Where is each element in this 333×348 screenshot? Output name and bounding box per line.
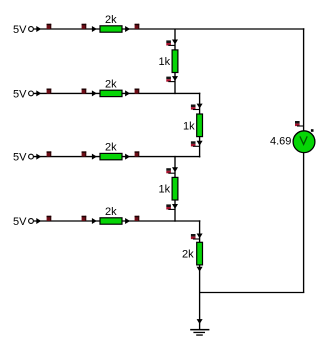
probe dot xyxy=(311,129,314,132)
wire V2 to R2 xyxy=(34,90,100,96)
ground xyxy=(190,319,209,336)
wire node D down through R8 to ground node xyxy=(197,220,203,329)
wire R3 to node C xyxy=(122,154,200,160)
wire V3 to R3 xyxy=(34,154,100,160)
pin R4 left xyxy=(82,216,87,221)
wire top-right corner down to voltmeter and bottom-right corner xyxy=(303,28,305,292)
svg-text:1k: 1k xyxy=(159,56,171,68)
wire node B down to R6 xyxy=(197,93,203,158)
resistor R1 2k xyxy=(100,14,122,32)
resistor R3 2k xyxy=(100,142,122,160)
pin R5 bottom xyxy=(166,77,175,82)
svg-text:2k: 2k xyxy=(182,249,194,261)
svg-text:2k: 2k xyxy=(105,78,117,90)
svg-text:2k: 2k xyxy=(105,14,117,26)
pin V3 xyxy=(47,151,52,156)
svg-text:5V: 5V xyxy=(13,152,27,164)
svg-text:5V: 5V xyxy=(13,216,27,228)
pin V1 xyxy=(47,24,52,29)
pin R7 top xyxy=(166,168,175,173)
pin R5 top xyxy=(166,40,175,45)
pin R1 right xyxy=(135,24,140,29)
resistor R5 1k xyxy=(159,50,178,73)
pin R2 left xyxy=(82,89,87,94)
pin R1 left xyxy=(82,24,87,29)
pin V2 xyxy=(47,89,52,94)
resistor R8 2k xyxy=(182,242,203,265)
resistor R4 2k xyxy=(100,206,122,224)
svg-text:2k: 2k xyxy=(105,206,117,218)
wire V4 to R4 xyxy=(34,218,100,224)
voltage source V1 5V xyxy=(13,24,33,36)
voltage source V2 5V xyxy=(13,88,33,100)
pin R3 right xyxy=(135,151,140,156)
pin voltmeter top xyxy=(295,121,304,126)
resistor R6 1k xyxy=(183,114,203,137)
pin V4 xyxy=(47,216,52,221)
pin R6 bottom xyxy=(191,141,200,146)
pin R4 right xyxy=(135,216,140,221)
pin R3 left xyxy=(82,151,87,156)
pin R7 bottom xyxy=(166,204,175,209)
svg-text:2k: 2k xyxy=(105,142,117,154)
wire R1 to node A and top-right corner xyxy=(122,26,304,32)
pin R2 right xyxy=(135,89,140,94)
wire V1 to R1 xyxy=(34,26,100,32)
wire node A down to R5 xyxy=(172,29,178,95)
wire R4 to node D xyxy=(122,218,200,224)
pin R6 top xyxy=(191,105,200,110)
svg-text:5V: 5V xyxy=(13,88,27,100)
resistor R2 2k xyxy=(100,78,122,96)
wire ground node to bottom-right corner xyxy=(200,292,305,294)
wire node C down to R7 xyxy=(172,156,178,222)
wire R2 to node B xyxy=(122,90,200,96)
svg-text:5V: 5V xyxy=(13,24,27,36)
svg-text:4.69: 4.69 xyxy=(270,136,291,148)
svg-text:1k: 1k xyxy=(159,184,171,196)
resistor R7 1k xyxy=(159,177,178,200)
pin R8 top xyxy=(191,234,200,239)
voltage source V3 5V xyxy=(13,152,33,164)
voltage source V4 5V xyxy=(13,216,33,228)
svg-text:1k: 1k xyxy=(183,120,195,132)
voltmeter M1 xyxy=(293,131,315,153)
